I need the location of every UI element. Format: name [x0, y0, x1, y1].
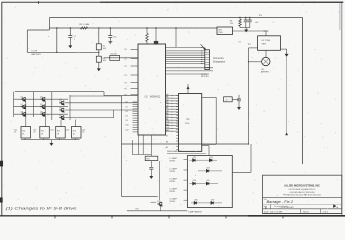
svg-text:R21: R21 — [136, 209, 139, 211]
diode CR6 symbol — [194, 201, 197, 204]
wire R6 top stub — [239, 18, 241, 20]
connector J1 hatch — [205, 56, 209, 58]
page border top — [2, 1, 344, 3]
wire VCC second rail — [50, 27, 218, 29]
resistor R3 box — [96, 56, 101, 62]
wire U2 to U1 stub 6 — [166, 111, 179, 113]
wire U1 left pin 3 — [176, 100, 178, 102]
svg-text:PHONE (612) 555-0100 FAX (612: PHONE (612) 555-0100 FAX (612) 555-0101 — [283, 194, 321, 197]
wire matrix to IC1 y110 — [65, 109, 137, 111]
svg-text:GOLDEN VALLEY, MN 55416: GOLDEN VALLEY, MN 55416 — [289, 191, 314, 194]
capacitor C8 — [108, 36, 112, 38]
wire U1 left pin 10 — [176, 120, 178, 122]
bottom border zone tick — [111, 215, 113, 218]
top border zone tick faint — [244, 1, 246, 3]
svg-text:R15: R15 — [146, 159, 149, 161]
ground C10 — [150, 174, 153, 178]
wire IC1 left pin L7 — [133, 117, 139, 119]
diode CR4 symbol — [193, 182, 196, 185]
wire IC1 to connector pin 4 — [166, 54, 205, 56]
svg-text:X1: X1 — [239, 41, 241, 43]
wire L5 into box — [184, 199, 188, 201]
wire battery left drop — [26, 30, 28, 52]
svg-text:CR3: CR3 — [206, 168, 209, 170]
resistor R5 vertical — [146, 33, 149, 41]
svg-text:B7: B7 — [166, 136, 168, 138]
wire U2 to U1 stub 4 — [166, 105, 179, 107]
svg-text:P3: P3 — [125, 75, 127, 77]
wire IC1 pin P5 — [131, 88, 139, 90]
wire Q10 emitter to rail — [160, 205, 162, 211]
wire C3 stub — [245, 18, 247, 21]
title divider 2 — [320, 209, 322, 214]
svg-text:DESIGNATION: DESIGNATION — [167, 150, 182, 153]
bottom border zone tick — [282, 215, 284, 218]
tee bar above oscillator — [264, 30, 269, 32]
wire U1 left pin 12 — [176, 126, 178, 128]
ground divider — [97, 67, 100, 71]
wire R5 drop from rail — [146, 28, 148, 33]
wire C7 to ground — [69, 37, 71, 43]
svg-text:BATTERY: BATTERY — [32, 53, 42, 56]
svg-text:P4: P4 — [125, 82, 127, 84]
transistor Q7 — [59, 101, 64, 105]
wire resistor row bottom rail — [21, 139, 80, 141]
wire R15 top — [150, 135, 152, 156]
wire K1 to C9 — [232, 98, 239, 100]
wire long drop x248 — [248, 48, 250, 144]
wire box1 bottom stub — [24, 138, 26, 140]
wire divider middle — [98, 50, 100, 56]
diode CR3 symbol — [206, 169, 209, 172]
wire battery tap to rail — [56, 28, 58, 52]
wire bottom y211 — [127, 210, 187, 212]
top border zone tick faint — [106, 1, 108, 3]
wire bottom y196 — [121, 195, 157, 197]
crystal Y1 — [154, 41, 158, 44]
wire below U2 x132 — [131, 140, 133, 155]
wire U2 to U1 stub 9 — [166, 119, 179, 121]
wire IC1 left pin L8 — [133, 119, 139, 121]
svg-text:U3 TONE: U3 TONE — [262, 40, 271, 42]
diode CR6 — [191, 202, 222, 204]
bottom border zone tick — [54, 215, 56, 218]
wire IC1 to connector pin 2 — [166, 50, 205, 52]
wire IC1 left pin L0 — [133, 101, 139, 103]
svg-text:LAMP MATRIX: LAMP MATRIX — [189, 211, 203, 214]
svg-text:Designation: Designation — [213, 61, 226, 64]
wire ground stub — [50, 140, 52, 142]
wire TP1 to oscillator — [249, 47, 258, 49]
wire osc to ground right — [281, 48, 287, 50]
wire IC1 left pin L12 — [133, 129, 139, 131]
wire L2 into box — [184, 169, 188, 171]
svg-text:.05: .05 — [14, 132, 16, 134]
svg-text:R13: R13 — [57, 131, 60, 133]
wire IC1 left pin L10 — [133, 124, 139, 126]
diode CR7 — [211, 201, 214, 204]
wire Q9 emitter drop — [60, 120, 62, 127]
page border right — [341, 2, 343, 216]
svg-text:D6: D6 — [126, 116, 128, 118]
wire IC1 pin P2 — [131, 65, 139, 67]
wire L4 into box — [184, 189, 188, 191]
connector J1 hatch — [205, 64, 209, 66]
title block — [263, 175, 342, 213]
svg-text:P5: P5 — [125, 88, 127, 90]
wire IC1 left pin L3 — [133, 108, 139, 110]
wire y154 link — [132, 154, 151, 156]
wire battery horizontal — [27, 51, 99, 53]
wire R4 to IC1 — [104, 57, 138, 59]
wire U1 left pin 4 — [176, 103, 178, 105]
wire U2 to U1 stub 2 — [166, 100, 179, 102]
title divider size cell — [270, 204, 272, 208]
ground C7 — [69, 44, 72, 48]
resistor R13 box — [56, 127, 65, 139]
wire col D drop — [74, 120, 76, 127]
connector J1 hatch — [205, 51, 209, 53]
wire IC1 left pin L4 — [133, 110, 139, 112]
connector J1 body — [205, 50, 210, 70]
wire cap C7 drop — [69, 28, 71, 36]
connector J1 hatch — [205, 59, 209, 61]
wire matrix col line C — [51, 92, 53, 120]
wire C10 down — [150, 169, 152, 174]
svg-text:RETURN: RETURN — [201, 76, 209, 78]
diode CR4 — [190, 183, 219, 185]
wire matrix col line A — [13, 92, 15, 117]
svg-text:DRIVE: DRIVE — [170, 171, 176, 173]
wire U1 left pin 20 — [176, 149, 178, 151]
svg-text:CR4: CR4 — [193, 180, 196, 182]
title divider 1 — [300, 209, 302, 214]
wire Q3 emitter drop — [25, 102, 27, 127]
capacitor C7 — [68, 36, 72, 38]
capacitor C10 — [149, 167, 153, 169]
wire speaker to left drop — [249, 61, 262, 63]
svg-text:DRIVE: DRIVE — [170, 161, 176, 163]
svg-text:DRIVE: DRIVE — [170, 181, 176, 183]
connector J1 hatch — [205, 61, 209, 63]
scan noise dots (decorative) — [112, 35, 115, 38]
svg-text:CR1: CR1 — [193, 157, 196, 159]
svg-text:BEEPER: BEEPER — [261, 72, 269, 74]
wire U2 to U1 stub 8 — [166, 116, 179, 118]
svg-text:150: 150 — [230, 23, 233, 25]
wire IC1 left pin L6 — [133, 115, 139, 117]
regulator VR1 box — [217, 27, 233, 35]
svg-text:B1: B1 — [166, 102, 168, 104]
wire drop x216 — [215, 97, 217, 144]
underline designation — [167, 153, 206, 155]
ground C8 bars — [108, 40, 112, 44]
page border bottom — [0, 215, 345, 217]
svg-text:TP1: TP1 — [248, 44, 251, 46]
wire IC1 pin P0 — [131, 48, 139, 50]
wire matrix rail corner — [103, 92, 105, 96]
wire U1 left pin 8 — [176, 114, 178, 116]
svg-text:LOOP: LOOP — [32, 51, 38, 53]
wire U1 left pin 1 — [176, 94, 178, 96]
gray scan speckles (decorative) — [155, 120, 158, 123]
speaker LS1 circle — [262, 57, 270, 65]
svg-text:(1) Changes to IF 9-8 drive: (1) Changes to IF 9-8 drive — [6, 206, 77, 210]
wire IC1 right lower 3 — [166, 73, 210, 75]
svg-text:CR2: CR2 — [209, 157, 212, 159]
wire corner x113 — [113, 110, 115, 118]
wire IC1 pin P3 — [131, 74, 139, 76]
wire U1 power pin top — [187, 84, 189, 94]
wire matrix col line B — [32, 92, 34, 117]
diode CR1 — [190, 159, 218, 161]
wire L1 into box — [184, 159, 188, 161]
top border zone tick faint — [313, 1, 315, 3]
svg-text:B0: B0 — [166, 96, 168, 98]
svg-text:RF 1 OHM: RF 1 OHM — [79, 24, 89, 26]
resistor R2 box — [96, 44, 101, 50]
diode CR5 — [206, 182, 209, 185]
wire matrix row 2 — [14, 106, 68, 108]
resistor RF inline — [81, 27, 88, 29]
wire U1 left pin 18 — [176, 143, 178, 145]
wire cap C8 drop — [109, 28, 111, 36]
svg-text:P2: P2 — [125, 66, 127, 68]
diode CR2 — [209, 159, 212, 162]
wire U2 to U1 stub 10 — [166, 122, 179, 124]
wire matrix to bus y96 — [70, 95, 121, 97]
title rule 1 — [263, 196, 342, 198]
left border blob 2 — [0, 198, 3, 203]
wire oscillator to speaker — [265, 50, 267, 57]
svg-text:P1: P1 — [125, 58, 127, 60]
wire U2 to U1 stub 12 — [166, 127, 179, 129]
wire Q10 collector drop — [158, 161, 160, 200]
bottom border zone tick — [168, 215, 170, 218]
wire C8 to ground — [109, 37, 111, 40]
resistor R15 box — [145, 156, 158, 160]
wire shared ground bar — [240, 27, 250, 29]
wire U2 to U1 stub 13 — [166, 130, 179, 132]
wire Q10 base lead — [151, 201, 157, 203]
transistor Q2 — [21, 105, 26, 109]
top border zone tick faint — [175, 1, 177, 3]
wire below U2 x138 — [138, 135, 140, 155]
capacitor C9 — [237, 99, 241, 101]
svg-text:Barrage - Fix 2: Barrage - Fix 2 — [267, 199, 294, 204]
title rule 2 — [263, 203, 342, 205]
connector J1 hatch — [205, 54, 209, 56]
wire matrix row 3 — [14, 113, 68, 115]
svg-text:R12: R12 — [41, 131, 44, 133]
capacitor C4 — [248, 20, 252, 22]
wire U2 to U1 stub 7 — [166, 114, 179, 116]
op-amp U2 MCU body — [138, 44, 166, 135]
ground C9 — [238, 105, 241, 109]
wire U1 left pin 6 — [176, 109, 178, 111]
wire long test line x286 — [286, 56, 288, 133]
svg-text:B2: B2 — [166, 107, 168, 109]
transistor Q9 — [59, 116, 64, 120]
wire U2 to U1 stub 1 — [166, 97, 179, 99]
wire U2 to U1 stub 3 — [166, 103, 179, 105]
wire box2 bottom stub — [43, 138, 45, 140]
svg-text:B9: B9 — [166, 147, 168, 149]
wire IC1 left pin L9 — [133, 122, 139, 124]
bottom border zone tick — [225, 215, 227, 218]
svg-text:GEN: GEN — [262, 43, 267, 45]
wire IC1 left pin L2 — [133, 106, 139, 108]
svg-text:ALLIED MICROSYSTEMS, INC: ALLIED MICROSYSTEMS, INC — [284, 184, 320, 187]
wire matrix top rail — [15, 91, 104, 93]
connector J1 arrow — [201, 44, 206, 49]
wire matrix to IC1 y102 — [65, 102, 137, 104]
bottom border darker right part — [248, 215, 345, 217]
wire rail to IC1 — [104, 95, 138, 97]
svg-text:C23: C23 — [50, 129, 53, 131]
wire drop to lamp box — [208, 146, 210, 156]
wire below U2 x143 — [142, 135, 144, 155]
svg-text:B3: B3 — [166, 113, 168, 115]
wire IC1 left pin L11 — [133, 126, 139, 128]
wire lamp box right riser — [250, 144, 252, 172]
wire C9 top stub — [238, 95, 240, 99]
wire U1 left pin 15 — [176, 134, 178, 136]
svg-text:B6: B6 — [166, 130, 168, 132]
wire IC1 right lower 1 — [166, 67, 214, 69]
wire U1 left pin 11 — [176, 123, 178, 125]
wire U1 left pin 17 — [176, 140, 178, 142]
svg-text:WDS4012: WDS4012 — [150, 96, 161, 98]
wire IC1 to connector pin 3 — [166, 52, 205, 54]
wire U1 left pin 13 — [176, 129, 178, 131]
svg-text:B: B — [265, 205, 267, 209]
title rule 3 — [263, 208, 342, 210]
wire U1 left pin 19 — [176, 146, 178, 148]
svg-text:D4: D4 — [126, 111, 128, 113]
wire matrix row 1 — [14, 98, 68, 100]
wire C9 down — [238, 101, 240, 105]
svg-text:DRIVE: DRIVE — [170, 191, 176, 193]
wire U1 right pin top — [202, 96, 217, 98]
wire IC1 pin P4 — [131, 82, 139, 84]
svg-text:CR7: CR7 — [211, 200, 214, 202]
arrow end x286 — [286, 133, 288, 135]
wire lamp box right lead — [232, 171, 251, 173]
svg-text:.05: .05 — [82, 132, 85, 134]
svg-text:R14: R14 — [73, 131, 76, 133]
ground resistor row — [50, 141, 53, 145]
svg-text:510 VILLAGE SQUARE STE 12: 510 VILLAGE SQUARE STE 12 — [289, 188, 316, 191]
wire +5V top rail — [50, 17, 303, 19]
svg-text:D2: D2 — [126, 106, 128, 108]
wire IC1 pin P6 — [131, 94, 139, 96]
svg-text:D12: D12 — [126, 129, 129, 131]
wire step down at left — [49, 18, 51, 31]
svg-text:B4: B4 — [166, 119, 168, 121]
top border zone tick — [38, 1, 40, 4]
svg-text:R4 400: R4 400 — [111, 54, 117, 56]
wire crystal drop — [155, 28, 157, 42]
svg-text:Connector: Connector — [213, 57, 224, 60]
wire VR1 out — [233, 30, 267, 32]
left border blob — [0, 161, 3, 167]
svg-text:.05: .05 — [33, 132, 36, 134]
wire U2 to U1 stub 5 — [166, 108, 179, 110]
wire box4 bottom stub — [75, 138, 77, 140]
wire IC1 pin P1 — [131, 58, 139, 60]
ground oscillator — [285, 52, 288, 56]
wire box3 bottom stub — [59, 138, 61, 140]
op-amp U1 driver IC body — [179, 94, 202, 152]
resistor R12 box — [40, 127, 50, 139]
wire inner frame right — [302, 18, 304, 165]
wire IC1 left pin L1 — [133, 103, 139, 105]
wire IC1 left pin L5 — [133, 113, 139, 115]
oscillator U3 box — [258, 36, 281, 51]
wire matrix col line D — [69, 95, 71, 120]
transistor Q8 — [59, 108, 64, 112]
wire IC1 to connector pin 6 — [166, 58, 205, 60]
wire U1 left pin 14 — [176, 131, 178, 133]
wire divider top — [98, 28, 100, 44]
connector J1 hatch — [205, 66, 209, 68]
title block bottom — [263, 213, 342, 215]
wire U2 to U1 stub 0 — [166, 94, 179, 96]
wire IC1 to connector pin 7 — [166, 61, 205, 63]
page border left — [1, 2, 3, 216]
wire rail tap to IC1 right bus — [175, 28, 177, 47]
wire IC1 to connector pin 1 — [166, 46, 205, 48]
svg-text:C24: C24 — [66, 129, 69, 131]
wire into oscillator — [265, 31, 267, 36]
component K1 box — [224, 97, 233, 102]
transistor Q5 — [40, 105, 45, 109]
svg-text:CR6: CR6 — [194, 200, 197, 202]
transistor Q3 — [21, 112, 26, 116]
resistor R6 — [239, 19, 242, 26]
title rev marker — [333, 205, 336, 208]
ground RC cluster — [245, 28, 248, 32]
wire IC1 left pin L13 — [133, 131, 139, 133]
transistor Q10 — [157, 202, 162, 206]
diode CR1 symbol — [193, 159, 196, 162]
wire U2 to U1 stub 11 — [166, 125, 179, 127]
svg-text:D8: D8 — [126, 120, 128, 122]
svg-text:TP4: TP4 — [259, 15, 262, 17]
svg-text:R11: R11 — [22, 131, 25, 133]
wire U1 right pin bottom — [202, 145, 209, 147]
speaker cross marks — [264, 59, 269, 63]
top border darker right part — [100, 1, 343, 3]
resistor R4 box — [110, 56, 120, 61]
wire U1 lower right to x216 — [202, 143, 217, 145]
svg-text:D10: D10 — [126, 125, 129, 127]
svg-text:B8: B8 — [166, 141, 168, 143]
lamp matrix box — [187, 156, 232, 208]
wire IC1 to connector pin 5 — [166, 56, 205, 58]
transistor Q4 — [40, 97, 45, 101]
wire U1 left pin 2 — [176, 97, 178, 99]
wire Q6 emitter drop — [44, 102, 46, 127]
svg-text:P0: P0 — [125, 49, 127, 51]
resistor R11 box — [21, 127, 31, 139]
wire L3 into box — [184, 179, 188, 181]
wire IC1 to connector pin 8 — [166, 63, 205, 65]
wire R15 to C10 — [150, 161, 152, 168]
transistor Q6 — [40, 112, 45, 116]
wire C4 stub — [249, 18, 251, 21]
